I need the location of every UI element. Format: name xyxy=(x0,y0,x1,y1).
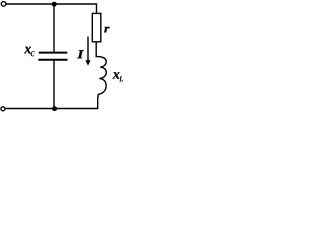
label xC - C subscript xyxy=(31,51,35,56)
node junction dot bottom xyxy=(52,106,57,111)
wire inductor to bottom xyxy=(97,97,99,108)
terminal T2 (bottom-left open circle) xyxy=(1,107,5,111)
label xC - x glyph xyxy=(24,47,30,54)
terminal T1 (top-left open circle) xyxy=(1,2,6,7)
current arrow I (line) xyxy=(87,37,89,62)
wire bottom horizontal xyxy=(5,108,98,110)
capacitor XC top plate xyxy=(39,52,68,54)
wire resistor to inductor xyxy=(95,42,97,57)
node junction dot top xyxy=(52,2,57,7)
wire capacitor bottom lead xyxy=(53,60,55,109)
wire top-right corner down to resistor xyxy=(96,3,98,13)
wire capacitor top lead xyxy=(53,4,55,52)
wire top horizontal xyxy=(6,3,97,5)
label xL - L subscript xyxy=(119,76,122,81)
capacitor XC bottom plate xyxy=(38,59,67,61)
label I xyxy=(77,50,84,58)
label r xyxy=(104,27,109,33)
label xL - x glyph xyxy=(113,72,120,78)
resistor r (box) xyxy=(92,13,101,41)
current arrow I (head) xyxy=(85,60,90,65)
inductor XL (3 bumps) xyxy=(96,57,106,98)
